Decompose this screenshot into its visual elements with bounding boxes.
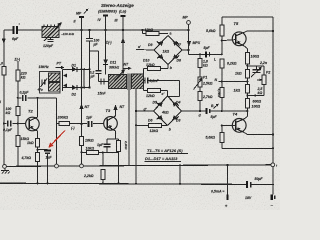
battery terminal -: [272, 185, 274, 195]
measurement point II: tick and wire x=81.5: [79, 16, 84, 18]
diode D9 (upper-left edge): [158, 41, 163, 46]
capacitor 15nF: [98, 81, 108, 83]
capacitor 0,2uF (on IV branch): [95, 70, 102, 76]
measurement point III: tick and wire x=123: [121, 15, 126, 17]
transformer core lines: [127, 74, 129, 90]
wire: 19kHz box outline: [40, 72, 61, 94]
junction dot tie/D1: [83, 68, 85, 70]
resistor 4,7kOhm: [36, 153, 40, 162]
wire: stub from 100uF to 0,2uF branch: [90, 50, 99, 52]
node dot 10k tee: [80, 151, 82, 153]
node dot III on top rail: [122, 29, 124, 31]
wire: T3 emitter RC network: [115, 131, 117, 139]
38kHz transformer right winding: [132, 74, 144, 89]
diode D5 (upper-left edge): [158, 102, 163, 107]
node dot II on top rail: [80, 29, 82, 31]
arrow up on III wire: [121, 38, 125, 44]
wire: y=148.4 tie line: [222, 147, 273, 149]
38kHz transformer left winding: [109, 75, 127, 89]
wire: tie rail x=180 between buses: [179, 165, 181, 184]
divider chain P1: resistor 1,8kOhm: [199, 54, 201, 111]
wire: main top horizontal rail y=30: [4, 29, 189, 31]
trimmer arrow on 38kHz: [115, 71, 125, 81]
red annotation arrow: [51, 131, 66, 146]
diode D10 (lower-left edge): [158, 54, 163, 59]
resistor 8,2kOhm: [220, 59, 224, 68]
resistor 1kOhm (lower): [245, 85, 249, 94]
connector circle bus1 x=81.5: [80, 164, 84, 168]
diode D8 (lower-right edge): [173, 54, 178, 59]
resistor 600 Ohm: [245, 99, 249, 109]
ground symbol: [4, 168, 6, 170]
node dot II wire / D2: [80, 87, 82, 89]
trimmer capacitor inside 19kHz box: [41, 80, 43, 85]
wire: T5 collector to right rail: [244, 31, 248, 33]
measurement point IV: tick and wire x=105.5: [103, 15, 108, 17]
resistor 2,2kOhm between rails: [101, 170, 105, 180]
diode D7 (upper-right edge): [173, 41, 178, 46]
capacitor 0,1uF in T2 base: [4, 123, 26, 125]
wire: T4 emitter to right rail: [244, 132, 248, 134]
upper ring demodulator diamond: [154, 36, 182, 65]
trimmer arrow through block: [44, 24, 61, 42]
potentiometer P1: [198, 77, 202, 87]
junction dot bus2 x=37.6: [37, 182, 39, 184]
wire: L line y=54.3: [189, 53, 222, 55]
wire from trimmer top to P2: [256, 65, 264, 67]
capacitor 5uF electrolytic (L line): [205, 51, 207, 57]
wire: x=102.8 down to bus1: [102, 152, 104, 165]
resistor 2,2kOhm (T3 emitter): [117, 141, 121, 152]
diode D2: [63, 87, 90, 89]
winding ticks on top of block: [43, 25, 45, 27]
resistor 200kOhm in T3 base line: [57, 123, 104, 125]
wire: node d line from lower diamond to T4 base column: [182, 110, 206, 112]
wire: branch x=56.5 down to bottom rail: [56, 98, 58, 164]
bottom rail bus1: [5, 165, 271, 167]
connector circle on bus1 right end: [271, 163, 275, 167]
resistor 12kOhm to bottom vertex: [136, 124, 168, 126]
resistor 15kOhm (base divider to bus): [17, 124, 19, 166]
junction dot bus2 x=47.5: [46, 182, 48, 184]
resistor 5,6kOhm (T5 collector top): [220, 25, 224, 36]
wire: 100uF branch vertical x=89.5: [89, 51, 91, 88]
bottom rail bus2: [0, 183, 246, 184]
junction dot 100uF branch / D1: [88, 68, 90, 70]
arrow: signal direction down on left rail: [2, 39, 6, 45]
junction dot bus2 x=180: [179, 183, 181, 185]
wire: 8,2nF down to node c': [179, 80, 181, 96]
wire: T3 collector to NT arrow: [115, 110, 117, 116]
capacitor 120uF under block: [50, 38, 52, 40]
connector circle bus1 x=56.5: [55, 164, 59, 168]
resistor 4,7kOhm (vertical, rotated label): [220, 88, 224, 98]
resistor 1kOhm (upper, T5 side): [245, 70, 249, 79]
junction dot tie/D2: [83, 87, 85, 89]
node dot T3 base tee: [80, 123, 82, 125]
resistor 5,6kOhm (T4 base bias): [220, 133, 224, 143]
arrow B annotation: [214, 105, 218, 109]
diode D4 (upper-right edge): [172, 102, 177, 107]
capacitor 1uF (T3 emitter): [103, 143, 110, 145]
wire: left winding bottom to bus rails: [128, 90, 130, 166]
wire: branch down to T2 collector: [36, 97, 38, 99]
wire: bias rail x=17.8: [17, 62, 19, 124]
potentiometer P2: [262, 75, 266, 85]
wire: T4 collector up to 600 ohm node: [244, 117, 247, 120]
diode D3 (lower-right edge): [172, 115, 177, 120]
resistor (unlabelled, cut at page edge) on left rail: [2, 67, 6, 76]
resistor 100 Ohm (T5 emitter): [245, 53, 249, 65]
right edge rail: [272, 17, 274, 163]
paper noise overlay: [0, 0, 280, 210]
arrow NT up on II wire: [79, 104, 83, 110]
capacitor 8,2nF: [143, 79, 146, 81]
diode D1: [62, 69, 64, 72]
capacitor 0,2uF (left, series in wire y=97.8): [18, 97, 57, 99]
junction dot bus2 x=227.5: [226, 183, 228, 185]
resistor 12kOhm from right winding to node c': [143, 89, 145, 91]
junction dot bus2 x=118.5: [117, 183, 119, 185]
secondary winding line with taps: [62, 72, 64, 91]
battery terminal +: [227, 184, 229, 194]
wire: emitter chain to bus: [37, 147, 39, 183]
wire: tie rail x=227.5 between buses: [227, 165, 229, 184]
coil/filter block with trimmer (120uF tank): [42, 27, 59, 38]
wire: T5 emitter down: [244, 46, 247, 49]
capacitor C 6uF in series on top rail: [13, 27, 18, 34]
node dot II wire / D1: [80, 68, 82, 70]
arrow MPX down on rail: [187, 41, 191, 47]
resistor 18kOhm on II wire: [80, 137, 84, 146]
junction dot 100uF branch / D2: [88, 87, 90, 89]
capacitor 5uF electrolytic (d line): [206, 108, 208, 114]
capacitor 10uF electrolytic: [44, 150, 51, 152]
resistor 10kOhm horizontal: [82, 151, 103, 153]
wire: top right rail y=17: [222, 16, 273, 18]
resistor 100kOhm: [16, 107, 20, 116]
wire: right vertex to MPX rail: [182, 49, 189, 51]
capacitor 50uF electrolytic in series with bus2: [246, 181, 248, 188]
resistor 1kOhm (T2 emitter): [36, 139, 40, 148]
capacitor 100uF on II side branch x=89.5: [89, 30, 91, 38]
wire: bottom tie of P2 / 2,5k: [247, 95, 264, 97]
resistor 2,7kOhm: [198, 92, 202, 101]
node dot IV on top rail: [104, 29, 106, 31]
19kHz coil core hatched: [49, 73, 61, 82]
connector circle bus1 left end: [3, 165, 7, 169]
junction dot bus2 x=102.8: [102, 182, 104, 184]
wire: stub to electrolytic: [38, 149, 48, 151]
lower ring demodulator diamond: [154, 96, 182, 126]
wire: T2 emitter down: [37, 131, 39, 139]
resistor 12kOhm from right winding to node b: [143, 69, 145, 74]
wire: left rail vertical x=3.8: [3, 30, 5, 166]
wire: discriminator output tie x=84.2: [83, 69, 85, 87]
trimmer capacitor 2,2nF: [247, 65, 256, 67]
resistor 12kOhm feeding node a: [142, 30, 144, 34]
junction dot bus2 x=136: [135, 183, 137, 185]
diode D6 (lower-left edge): [158, 115, 163, 120]
capacitor 1uF in T3 base: [87, 121, 93, 128]
resistor 220kOhm: [16, 70, 20, 81]
